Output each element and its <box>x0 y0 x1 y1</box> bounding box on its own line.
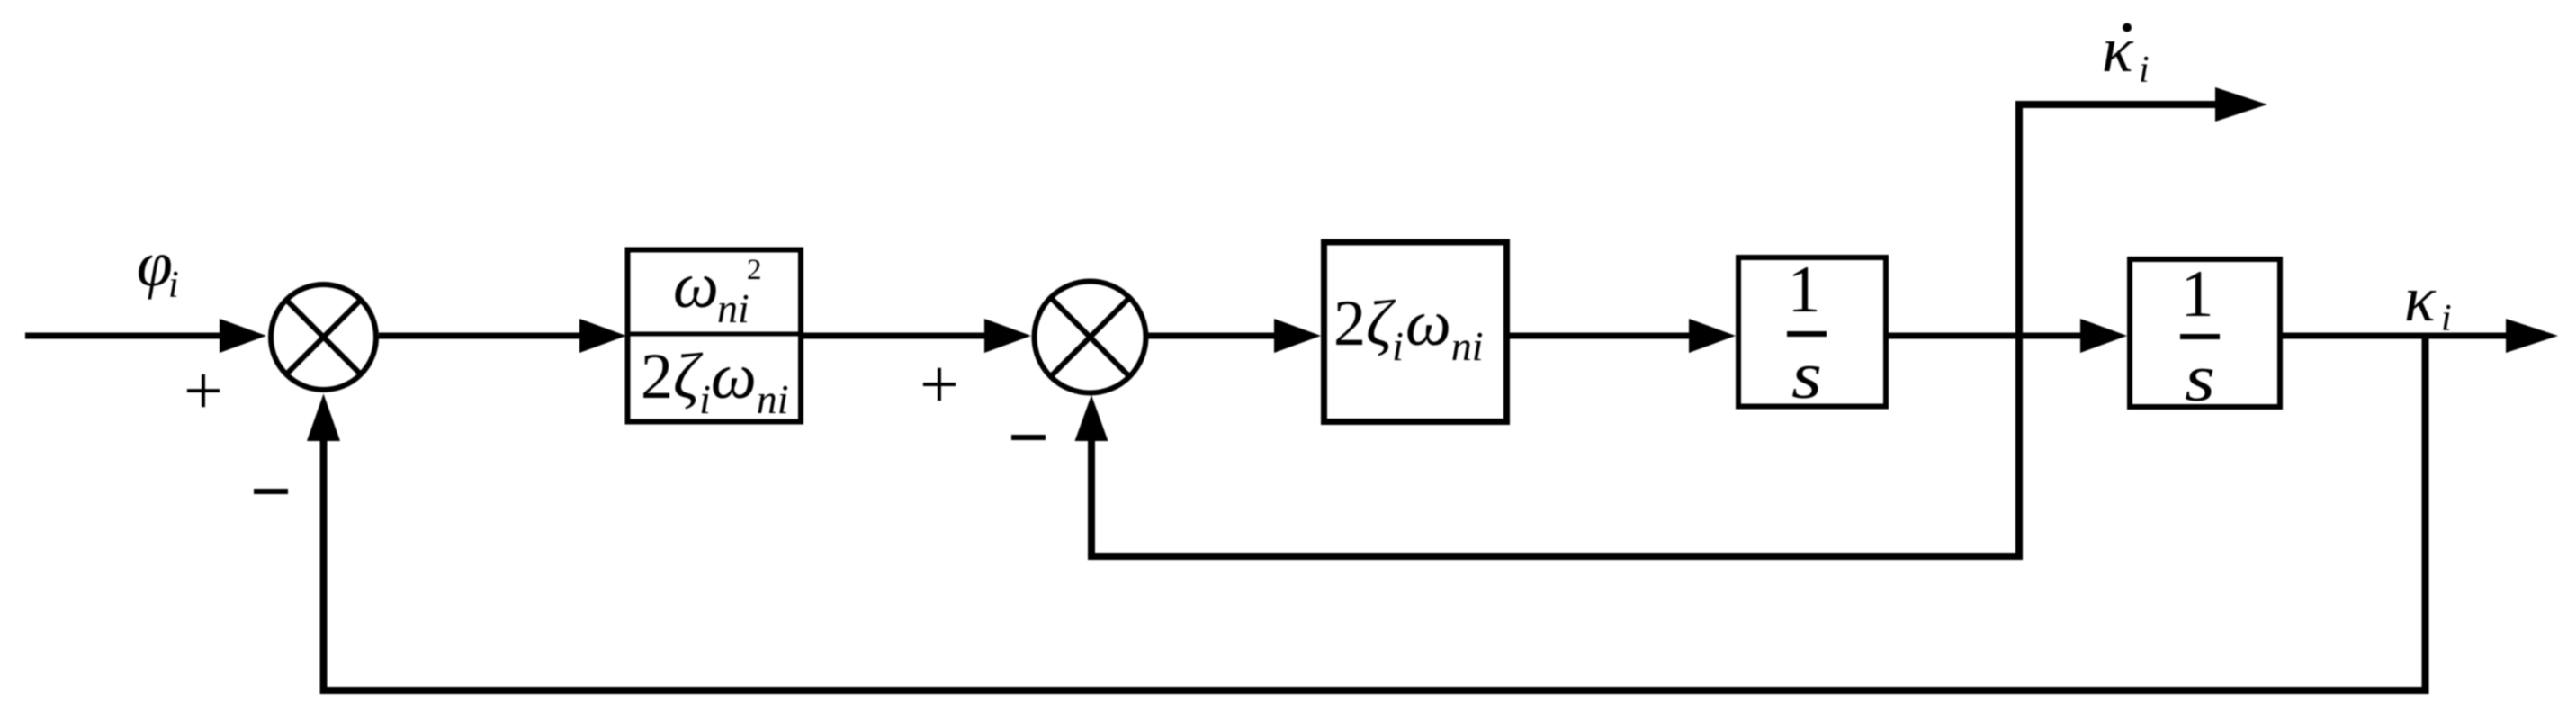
arrowhead into block G3 <box>1689 319 1736 353</box>
arrowhead into summing junction S2 <box>984 319 1031 353</box>
svg-text:2: 2 <box>747 254 762 286</box>
svg-text:1: 1 <box>2181 257 2214 331</box>
summing junction S2 (circle with X) <box>1035 282 1146 393</box>
G1 fraction bar <box>627 332 802 337</box>
arrowhead into block G4 <box>2080 319 2127 353</box>
svg-text:i: i <box>168 265 179 306</box>
svg-text:κ: κ <box>2404 263 2437 335</box>
wire: S2 to block G2 <box>1147 333 1279 339</box>
arrowhead into block G2 <box>1274 319 1321 353</box>
svg-text:i: i <box>2441 298 2452 339</box>
svg-text:s: s <box>2185 342 2215 416</box>
arrowhead output kappa_i <box>2506 319 2558 353</box>
wire: outer feedback left vertical up to S1 <box>320 440 328 694</box>
block G2: 2 zeta_i omega_ni <box>1324 242 1507 422</box>
summing junction S1 (circle with X) <box>271 284 376 390</box>
svg-text:i: i <box>2139 50 2150 91</box>
wire: inner feedback left vertical up to S2 <box>1088 440 1095 560</box>
wire: output line <box>2283 333 2510 339</box>
wire: outer feedback bottom line <box>320 687 2429 694</box>
block G4: 1/s integrator <box>2130 259 2280 407</box>
wire: G2 to block G3 <box>1510 333 1694 339</box>
svg-text:s: s <box>1791 339 1822 413</box>
block G3: 1/s integrator <box>1738 257 1886 407</box>
arrowhead into S2 from below <box>1075 395 1108 441</box>
minus sign at summing junction S1 feedback input <box>254 489 288 494</box>
wire: input line <box>25 333 225 339</box>
wire: G1 to summing junction S2 <box>803 333 990 339</box>
svg-text:φ: φ <box>137 228 173 300</box>
G4 fraction bar <box>2180 334 2220 339</box>
arrowhead into block G1 <box>579 319 626 353</box>
arrowhead into S1 from below <box>307 394 340 442</box>
wire: G3 to block G4 (passes branch node A) <box>1889 333 2086 339</box>
G3 fraction bar <box>1787 331 1827 337</box>
svg-text:+: + <box>920 345 959 423</box>
arrowhead into summing junction S1 <box>220 319 266 353</box>
minus sign at summing junction S2 feedback input <box>1011 435 1046 440</box>
arrowhead kappa-dot output <box>2215 87 2267 122</box>
svg-text:1: 1 <box>1788 253 1821 327</box>
wire: branch node A vertical (kappa-dot tap and inner feedback) <box>2015 101 2023 560</box>
svg-text:ω: ω <box>673 249 719 321</box>
wire: S1 to block G1 <box>379 333 585 339</box>
svg-text:+: + <box>184 351 223 429</box>
block G1: omega_ni^2 / (2 zeta_i omega_ni) <box>628 250 802 422</box>
wire: output branch node B vertical down <box>2422 336 2429 694</box>
wire: inner feedback horizontal line <box>1088 553 2023 560</box>
wire: kappa-dot output line <box>2015 101 2217 108</box>
svg-text:ni: ni <box>717 285 749 331</box>
